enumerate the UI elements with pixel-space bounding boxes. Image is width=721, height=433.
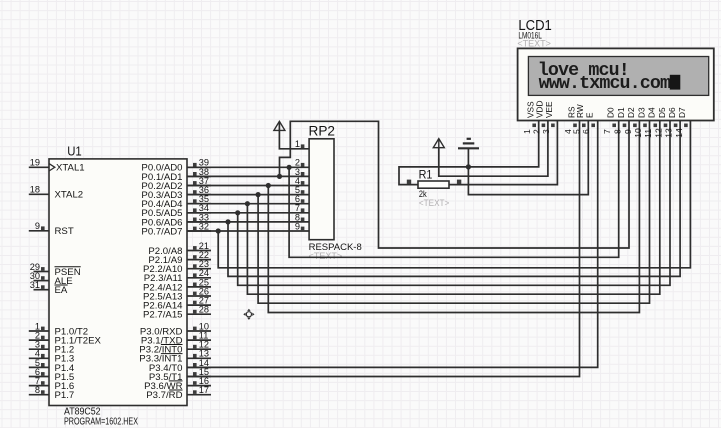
svg-text:D0: D0	[606, 107, 616, 118]
svg-text:RST: RST	[55, 226, 74, 237]
svg-text:RP2: RP2	[309, 123, 336, 139]
svg-text:EA: EA	[55, 285, 68, 296]
svg-text:<TEXT>: <TEXT>	[517, 38, 551, 48]
svg-text:D6: D6	[667, 107, 677, 118]
svg-text:32: 32	[199, 221, 209, 231]
svg-text:XTAL2: XTAL2	[55, 190, 84, 201]
svg-text:10: 10	[633, 128, 643, 138]
svg-text:18: 18	[30, 185, 40, 195]
svg-text:9: 9	[295, 221, 300, 231]
svg-text:11: 11	[643, 129, 653, 138]
svg-text:R1: R1	[419, 167, 433, 181]
svg-text:19: 19	[30, 158, 40, 168]
svg-text:3: 3	[541, 129, 551, 134]
svg-text:D2: D2	[626, 107, 636, 118]
svg-text:E: E	[585, 112, 595, 118]
svg-text:D3: D3	[636, 107, 646, 118]
svg-text:9: 9	[35, 221, 40, 231]
svg-text:<TEXT>: <TEXT>	[309, 251, 343, 261]
svg-text:D4: D4	[647, 107, 657, 118]
svg-text:XTAL1: XTAL1	[56, 163, 85, 174]
svg-text:P1.7: P1.7	[55, 390, 75, 401]
svg-text:P0.7/AD7: P0.7/AD7	[141, 226, 182, 237]
svg-text:9: 9	[623, 129, 633, 134]
svg-text:8: 8	[35, 385, 40, 395]
svg-text:13: 13	[664, 128, 674, 138]
svg-text:PROGRAM=1602.HEX: PROGRAM=1602.HEX	[64, 416, 138, 427]
svg-text:D7: D7	[677, 107, 687, 118]
svg-text:www.txmcu.com: www.txmcu.com	[539, 74, 671, 94]
svg-text:P2.7/A15: P2.7/A15	[143, 310, 182, 321]
svg-text:VDD: VDD	[535, 100, 545, 118]
svg-text:VEE: VEE	[544, 101, 554, 118]
svg-text:2: 2	[531, 129, 541, 134]
svg-text:17: 17	[199, 385, 209, 395]
svg-text:6: 6	[581, 129, 591, 134]
svg-text:1: 1	[295, 139, 300, 149]
svg-text:7: 7	[602, 129, 612, 134]
svg-text:U1: U1	[67, 144, 82, 158]
svg-text:8: 8	[612, 129, 622, 134]
svg-text:14: 14	[674, 128, 684, 138]
svg-text:D1: D1	[616, 107, 626, 118]
svg-text:P3.7/RD: P3.7/RD	[146, 390, 182, 401]
svg-text:12: 12	[653, 128, 663, 138]
svg-text:28: 28	[199, 305, 209, 315]
svg-text:D5: D5	[657, 107, 667, 118]
svg-text:<TEXT>: <TEXT>	[419, 198, 449, 208]
svg-text:31: 31	[30, 280, 40, 290]
